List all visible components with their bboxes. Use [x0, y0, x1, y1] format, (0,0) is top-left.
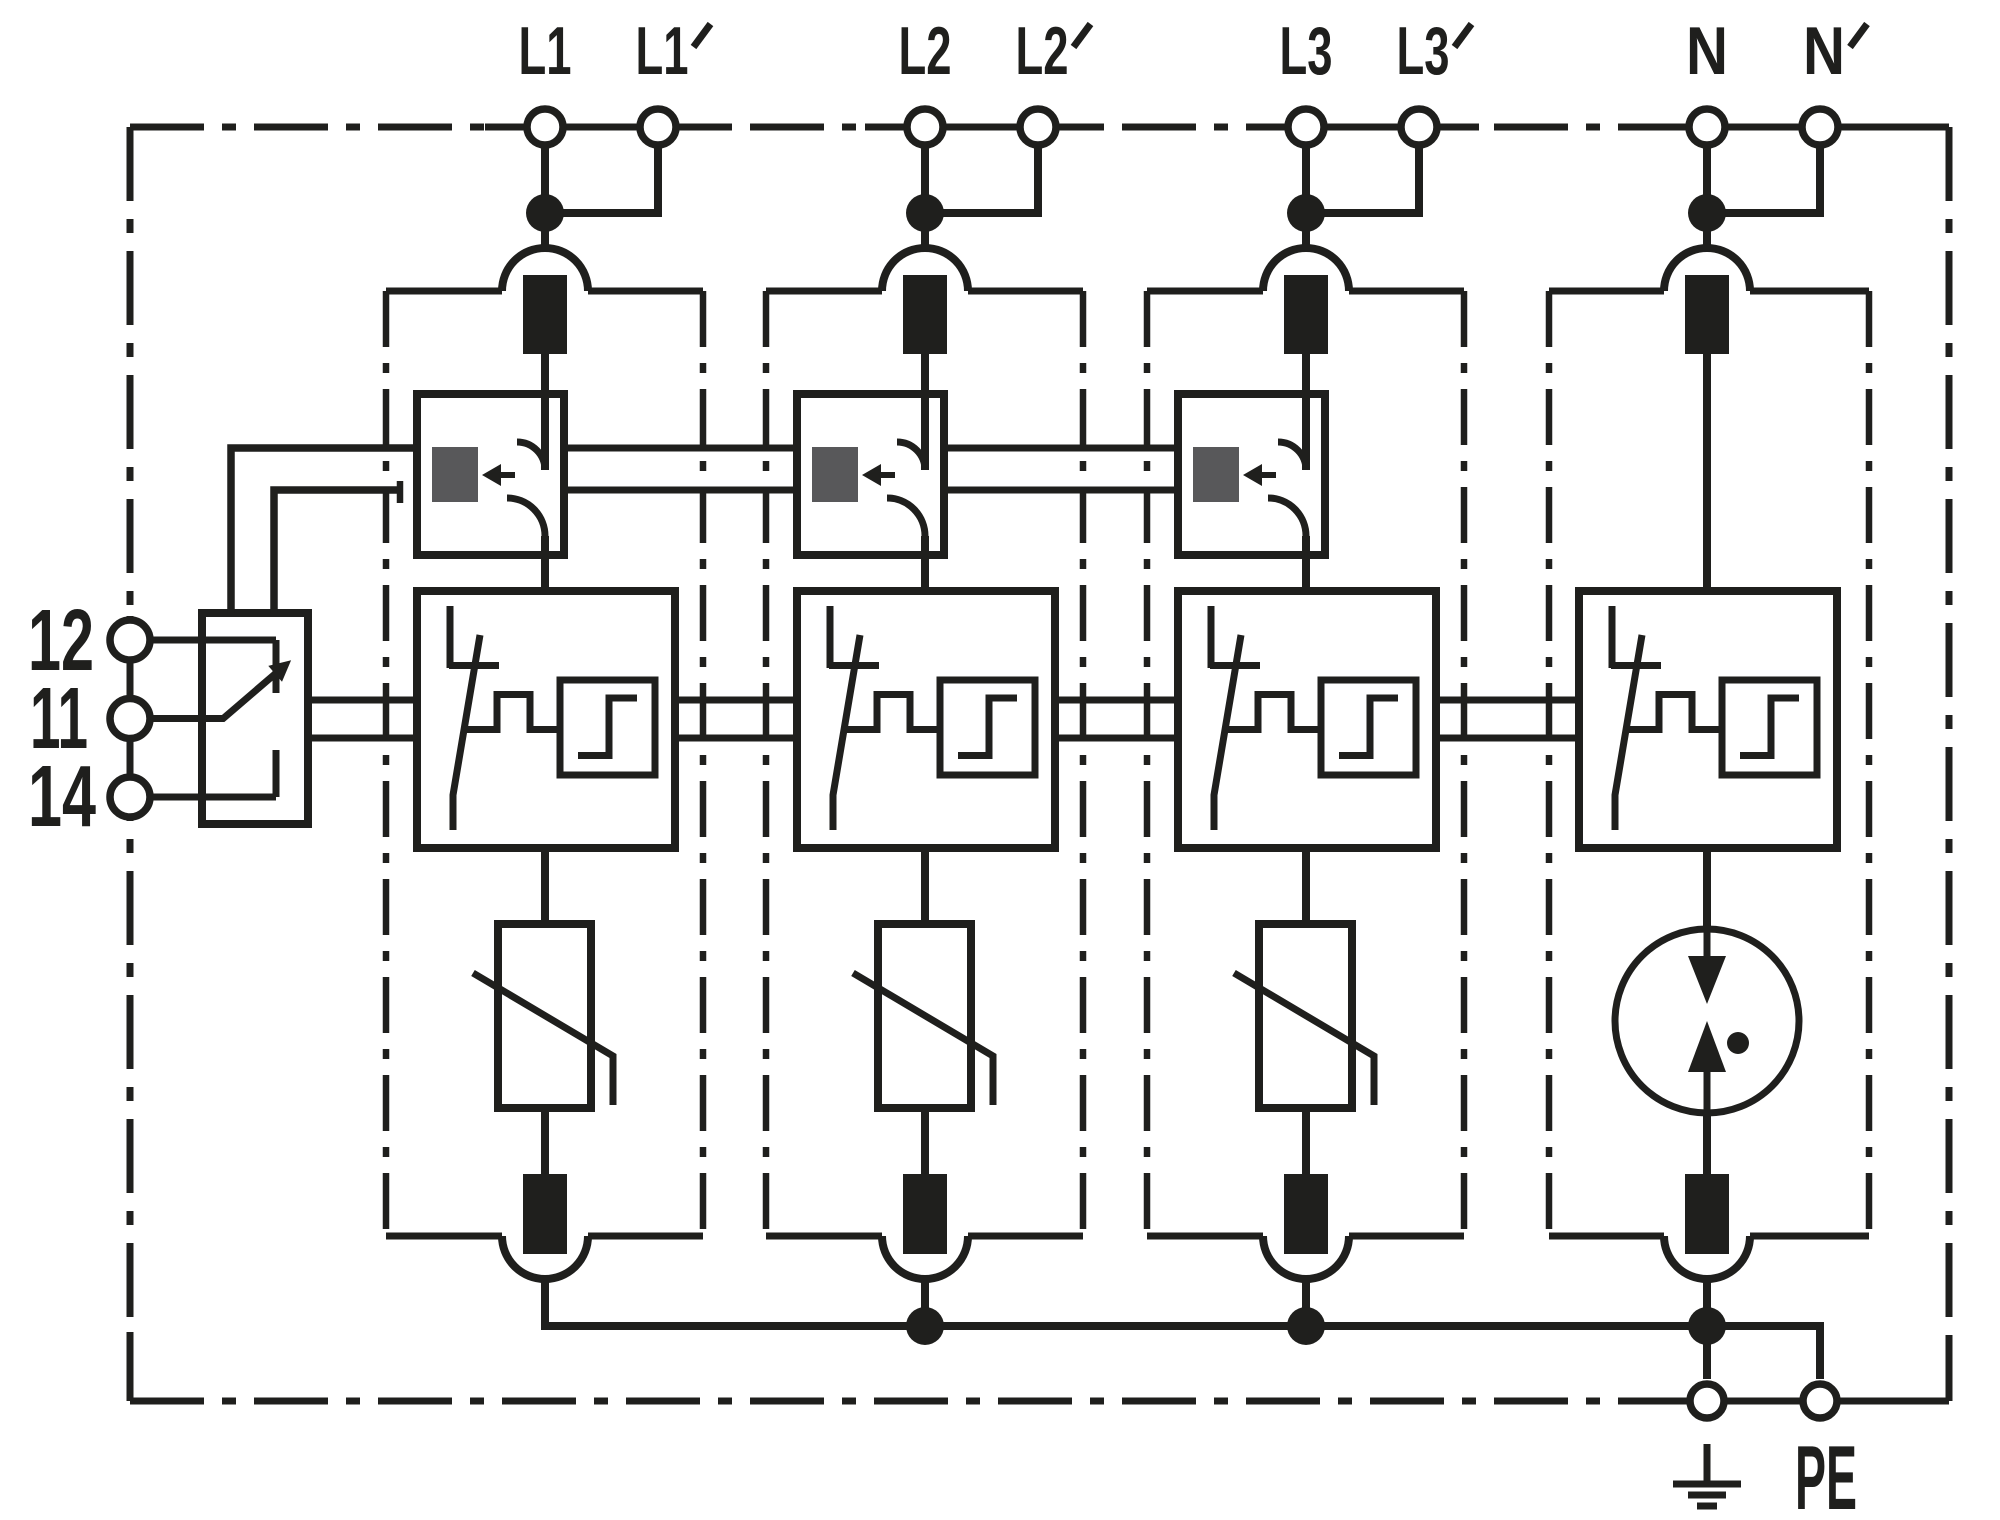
terminal PE (ground side)	[1690, 1384, 1724, 1418]
plug-in contact bottom N (blade + socket arc)	[1664, 1174, 1750, 1279]
wire PE bus	[545, 1277, 1820, 1379]
terminal L2	[907, 109, 943, 145]
device enclosure border (dash-dot outline)	[130, 127, 1949, 1401]
wire contact box to arrester L1 (upper)	[308, 697, 417, 704]
plug-in contact top L1 (socket arc + blade)	[502, 248, 588, 354]
svg-text:N: N	[1686, 13, 1728, 89]
plug-in contact top L2 (socket arc + blade)	[882, 248, 968, 354]
module frame L1 (dashed plug-in module outline)	[386, 291, 703, 1236]
wire border corner solid pieces	[130, 127, 1949, 1401]
wire L1 terminal down	[541, 145, 549, 213]
wire L1' branch	[560, 145, 658, 213]
terminal L2'	[1020, 109, 1056, 145]
wire arrester pair L3-N (lower)	[1435, 735, 1579, 742]
module frame L3 (dashed plug-in module outline)	[1147, 291, 1464, 1236]
junction node L3-PE bus	[1287, 1307, 1325, 1345]
plug-in contact bottom L2 (blade + socket arc)	[882, 1174, 968, 1279]
terminal N	[1689, 109, 1725, 145]
terminal L1'	[640, 109, 676, 145]
svg-text:L2: L2	[899, 13, 952, 89]
module frame L2 (dashed plug-in module outline)	[766, 291, 1083, 1236]
wire top border solid segments at terminals	[485, 124, 1880, 131]
plug-in contact top L3 (socket arc + blade)	[1263, 248, 1349, 354]
contact 12 stub	[273, 640, 280, 693]
label L3' (prime)	[1397, 13, 1472, 89]
varistor L2	[853, 924, 993, 1108]
wire L2 to PE bus	[921, 1277, 929, 1326]
wire L2 junction to plug contact	[921, 213, 929, 250]
thermal disconnect switch L2 (with release arrow)	[797, 394, 944, 591]
spark-gap arrester unit L3 (triggered spark gap box)	[1178, 591, 1436, 924]
wire N' branch	[1722, 145, 1820, 213]
wire L3 varistor to bottom contact	[1302, 1108, 1310, 1174]
svg-text:PE: PE	[1795, 1428, 1857, 1520]
wire L1 varistor to bottom contact	[541, 1108, 549, 1174]
spark-gap arrester unit N (triggered spark gap box)	[1579, 591, 1837, 931]
terminal 14	[110, 777, 150, 817]
wire N terminal down	[1703, 145, 1711, 213]
label L1	[519, 13, 572, 89]
junction node N	[1688, 194, 1726, 232]
svg-text:L3: L3	[1280, 13, 1333, 89]
label terminal 12	[28, 592, 94, 689]
wire contact box to arrester L1 (lower)	[308, 735, 417, 742]
changeover blade (from terminal 11, arrow)	[222, 660, 291, 719]
module frame N (dashed plug-in module outline)	[1549, 291, 1869, 1236]
terminal PE'	[1803, 1384, 1837, 1418]
plug-in contact bottom L1 (blade + socket arc)	[502, 1174, 588, 1279]
junction node N-PE bus	[1688, 1307, 1726, 1345]
contact 14 stub	[273, 750, 280, 797]
ground symbol (earth)	[1673, 1444, 1741, 1506]
label L2	[899, 13, 952, 89]
junction node L3	[1287, 194, 1325, 232]
wire L2 contact to thermal disconnect	[921, 354, 929, 394]
svg-text:L3: L3	[1397, 13, 1450, 89]
label N	[1686, 13, 1728, 89]
wire arrester pair L1-L2 (upper)	[675, 697, 797, 704]
wire arrester pair L2-L3 (upper)	[1055, 697, 1177, 704]
thermal disconnect switch L3 (with release arrow)	[1178, 394, 1325, 591]
wire signal pair L1-L2 (lower)	[564, 487, 797, 494]
wire N junction to plug contact	[1703, 213, 1711, 250]
wire signal line A to thermal disconnect L1 (with riser)	[231, 448, 417, 613]
wire L3' branch	[1321, 145, 1419, 213]
wire arrester pair L3-N (upper)	[1435, 697, 1579, 704]
wire signal pair L1-L2 (upper)	[564, 445, 797, 452]
thermal disconnect switch L1 (with release arrow)	[417, 394, 564, 591]
wire arrester pair L2-L3 (lower)	[1055, 735, 1177, 742]
wire N gas discharge tube to bottom contact	[1703, 1113, 1711, 1174]
wire L1 junction to plug contact	[541, 213, 549, 250]
wire terminal 11 to contact box	[152, 715, 224, 722]
wire signal pair L2-L3 (lower)	[944, 487, 1177, 494]
terminal L1	[527, 109, 563, 145]
plug-in contact bottom L3 (blade + socket arc)	[1263, 1174, 1349, 1279]
terminal 12	[110, 620, 150, 660]
label L1' (prime)	[636, 13, 711, 89]
svg-text:N: N	[1803, 13, 1845, 89]
wire L2 varistor to bottom contact	[921, 1108, 929, 1174]
wire L2 terminal down	[921, 145, 929, 213]
terminal L3	[1288, 109, 1324, 145]
wire L2' branch	[940, 145, 1038, 213]
junction node L1	[526, 194, 564, 232]
label PE	[1795, 1428, 1857, 1520]
terminal L3'	[1401, 109, 1437, 145]
plug-in contact top N (socket arc + blade)	[1664, 248, 1750, 354]
junction node L2	[906, 194, 944, 232]
label L2' (prime)	[1016, 13, 1091, 89]
wire N contact to arrester unit	[1703, 354, 1711, 591]
svg-text:L1: L1	[636, 13, 689, 89]
svg-text:L1: L1	[519, 13, 572, 89]
label L3	[1280, 13, 1333, 89]
spark-gap arrester unit L1 (triggered spark gap box)	[417, 591, 675, 924]
wire L3 to PE bus	[1302, 1277, 1310, 1326]
wire arrester pair L1-L2 (lower)	[675, 735, 797, 742]
varistor L3	[1234, 924, 1374, 1108]
wire terminal 14 to contact box	[152, 794, 276, 801]
terminal 11	[110, 699, 150, 739]
terminal N'	[1802, 109, 1838, 145]
wire bottom border solid segment at PE terminals	[1647, 1398, 1949, 1405]
wire signal pair L2-L3 (upper)	[944, 445, 1177, 452]
junction node L2-PE bus	[906, 1307, 944, 1345]
svg-text:14: 14	[28, 748, 96, 845]
spark-gap arrester unit L2 (triggered spark gap box)	[797, 591, 1055, 924]
wire left border solid segment at signal terminals	[127, 616, 134, 821]
wire L3 junction to plug contact	[1302, 213, 1310, 250]
label terminal 14	[28, 748, 96, 845]
svg-text:L2: L2	[1016, 13, 1069, 89]
varistor L1	[473, 924, 613, 1108]
wire N to PE bus	[1703, 1277, 1711, 1379]
gas discharge tube N-PE (spark gap symbol)	[1615, 929, 1799, 1113]
wire L3 terminal down	[1302, 145, 1310, 213]
remote signalling changeover contact box	[202, 613, 308, 824]
wire L3 contact to thermal disconnect	[1302, 354, 1310, 394]
wire terminal 12 to contact box	[152, 637, 276, 644]
wire L1 contact to thermal disconnect	[541, 354, 549, 394]
label N' (prime)	[1803, 13, 1867, 89]
label terminal 11	[30, 670, 88, 767]
wire signal line B stub (with riser)	[274, 481, 400, 613]
